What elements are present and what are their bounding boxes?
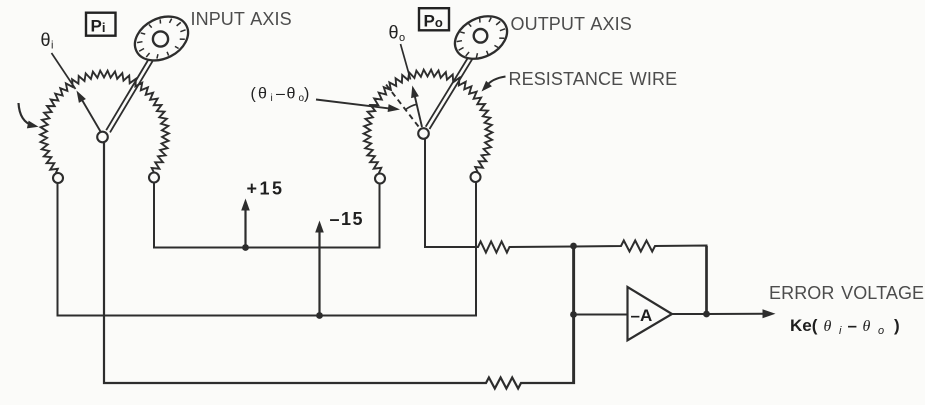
- wire: P_i left terminal to P_o right terminal (lower rail): [58, 183, 477, 316]
- P_o output dial: [448, 8, 515, 67]
- P_i input shaft (double line): [106, 42, 163, 133]
- svg-text:RESISTANCE WIRE: RESISTANCE WIRE: [509, 69, 678, 89]
- P_o left terminal: [375, 174, 385, 184]
- op-amp -A triangle: [628, 287, 673, 340]
- svg-text:ERROR VOLTAGE: ERROR VOLTAGE: [769, 283, 924, 303]
- P_o right terminal: [471, 172, 481, 182]
- P_o output shaft (double line): [426, 41, 483, 130]
- wire: feedback vertical (thick): [705, 246, 708, 314]
- label P_i box: [86, 13, 116, 36]
- svg-text:–A: –A: [631, 306, 653, 325]
- wire: op-amp output: [672, 313, 707, 315]
- svg-text:Ke(θi–θo): Ke(θi–θo): [790, 316, 900, 337]
- rotation curved arrow: [19, 103, 34, 126]
- svg-text:–15: –15: [330, 209, 365, 229]
- -15 supply arrow: [318, 231, 320, 316]
- wire: P_i wiper to bottom rail with resistor, up to summing node: [104, 143, 574, 389]
- svg-text:Po: Po: [424, 12, 443, 31]
- junction dot -15: [316, 312, 323, 319]
- P_i wiper arrow: [80, 97, 101, 132]
- angle arc (theta_i - theta_o): [405, 104, 416, 109]
- label P_o box: [419, 8, 449, 30]
- P_i right terminal: [149, 173, 159, 183]
- dashed null-position line: [385, 83, 419, 127]
- potentiometer P_i resistance element arc: [40, 71, 169, 177]
- svg-text:θo: θo: [389, 23, 406, 45]
- P_i input dial: [127, 8, 195, 69]
- P_i left terminal: [53, 173, 63, 183]
- theta_i pointer line: [52, 53, 76, 89]
- svg-text:OUTPUT AXIS: OUTPUT AXIS: [511, 14, 632, 34]
- P_o wiper arrow: [414, 92, 422, 127]
- junction dot summing input: [570, 311, 577, 318]
- +15 supply arrow: [244, 209, 246, 248]
- theta_o pointer line: [401, 44, 411, 80]
- wire: summing node vertical (thick): [572, 246, 575, 383]
- wire: summing node to op-amp input: [574, 314, 628, 316]
- wire: P_i right terminal to P_o left terminal (supply rail): [154, 183, 380, 248]
- wire: P_o wiper through input resistor and feedback resistor: [425, 139, 707, 314]
- error voltage output arrow: [707, 313, 765, 315]
- P_o dial hub circle: [474, 29, 488, 43]
- potentiometer P_o resistance element arc: [364, 70, 493, 176]
- svg-text:θi: θi: [41, 30, 54, 52]
- junction dot summing top: [570, 243, 577, 250]
- P_i wiper circle: [97, 132, 108, 143]
- pointer arrow to angle: [316, 100, 389, 109]
- svg-text:Pi: Pi: [91, 16, 106, 35]
- P_o wiper circle: [418, 128, 429, 139]
- svg-text:INPUT AXIS: INPUT AXIS: [191, 9, 292, 29]
- svg-text:(θi–θo): (θi–θo): [251, 86, 310, 105]
- junction dot output node: [703, 311, 710, 318]
- junction dot +15: [242, 244, 249, 251]
- pointer arrow to resistance wire: [487, 77, 506, 87]
- svg-text:+15: +15: [247, 179, 285, 199]
- P_i dial hub circle: [153, 31, 168, 46]
